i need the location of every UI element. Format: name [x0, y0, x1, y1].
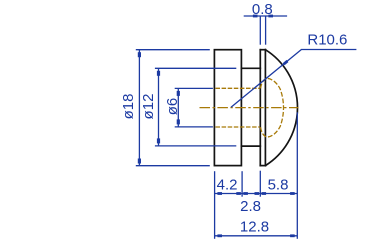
arrow ø6 top [177, 91, 180, 96]
svg-text:0.8: 0.8 [252, 1, 273, 18]
svg-text:ø12: ø12 [140, 94, 157, 120]
dim line 12.8 [215, 235, 298, 237]
land bottom edge [260, 165, 265, 167]
neck top edge (ø12) [241, 67, 260, 69]
arrow 2.8 right [255, 192, 260, 195]
arrow 4.2 right [236, 192, 241, 195]
neck bottom edge (ø12) [241, 145, 260, 147]
svg-text:4.2: 4.2 [217, 177, 238, 194]
dim line ø18 [138, 50, 140, 166]
dim line ø12 [158, 68, 160, 146]
dim line row 4.2 / 2.8 / 5.8 [215, 193, 298, 195]
svg-text:ø6: ø6 [164, 98, 181, 116]
svg-text:12.8: 12.8 [240, 219, 269, 236]
arrow 5.8 right [290, 192, 295, 195]
land left face edge [259, 50, 261, 166]
dimension lines (blue) [136, 16, 357, 239]
hole bottom hidden line (ø6) [216, 126, 260, 128]
arrow 0.8 right [268, 15, 273, 18]
svg-text:R10.6: R10.6 [307, 32, 347, 49]
ext lines 0.8 [259, 16, 261, 45]
arrow 2.8 left [243, 192, 248, 195]
dim line ø6 [177, 88, 179, 127]
arrow ø6 bottom [177, 119, 180, 124]
arrowheads (blue) [138, 15, 295, 238]
bottom ext line a [214, 171, 216, 239]
leader R10.6 [231, 50, 356, 108]
svg-text:ø18: ø18 [120, 94, 137, 120]
flange rectangle (ø18) [214, 50, 241, 166]
arrow ø18 bottom [138, 159, 141, 164]
svg-text:5.8: 5.8 [268, 177, 289, 194]
dome junction edge [264, 50, 266, 166]
ext lines ø12 [155, 67, 236, 69]
arrow R10.6 on arc [283, 60, 289, 65]
arrow 4.2 left [217, 192, 222, 195]
arrow ø12 bottom [157, 138, 160, 143]
dimension texts [120, 1, 347, 235]
arrow 5.8 left [262, 192, 267, 195]
land top edge [260, 49, 265, 51]
ext lines ø18 [136, 49, 210, 51]
centerline [200, 107, 299, 109]
dome arc R10.6 [265, 50, 297, 166]
bottom ext line d [296, 112, 298, 239]
ext lines ø6 [175, 87, 213, 89]
hidden cavity bulb [261, 78, 284, 137]
arrow ø18 top [138, 52, 141, 57]
hole top hidden line (ø6) [216, 87, 260, 89]
dim line 0.8 [244, 15, 287, 17]
svg-text:2.8: 2.8 [240, 198, 261, 215]
hidden geometry (orange) [200, 78, 299, 137]
arrow 12.8 left [217, 234, 222, 237]
arrow 0.8 left [253, 15, 258, 18]
arrow ø12 top [157, 71, 160, 76]
bottom ext line c [259, 171, 261, 197]
arrow 12.8 right [290, 234, 295, 237]
bottom ext line b [241, 171, 243, 197]
part outline group [214, 50, 297, 166]
